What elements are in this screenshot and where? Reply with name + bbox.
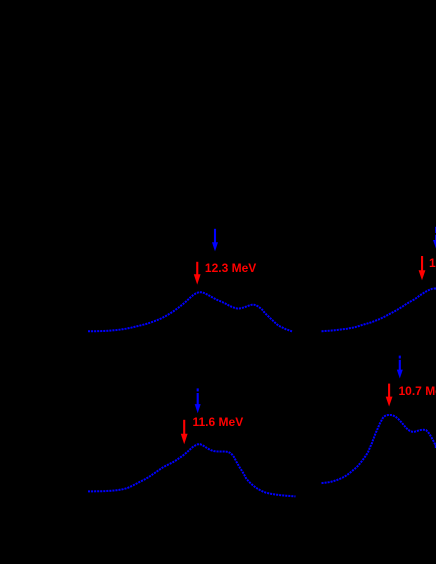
svg-text:12.2 MeV: 12.2 MeV xyxy=(429,256,436,270)
svg-text:12.3 MeV: 12.3 MeV xyxy=(205,261,256,275)
svg-text:11.6 MeV: 11.6 MeV xyxy=(193,415,244,429)
svg-text:10.7 MeV: 10.7 MeV xyxy=(399,384,436,398)
